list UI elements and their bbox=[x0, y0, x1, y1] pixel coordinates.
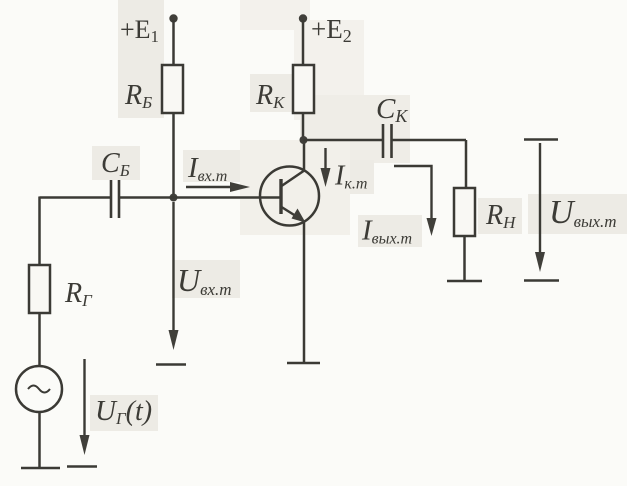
wire left branch down bbox=[38, 197, 41, 266]
resistor RK bbox=[293, 65, 314, 113]
wire E1 to RB bbox=[172, 20, 175, 65]
capacitor CB bbox=[110, 180, 113, 218]
bar U vyx.m top bbox=[524, 138, 558, 140]
wire source to ground bbox=[38, 412, 41, 467]
wire RK to collector node bbox=[302, 113, 305, 140]
node +E2 terminal dot bbox=[299, 14, 307, 22]
scan shading patches bbox=[90, 0, 627, 431]
source VG circle bbox=[16, 366, 62, 412]
collector wire up bbox=[303, 140, 306, 170]
transistor collector stroke bbox=[282, 170, 306, 186]
resistor RG bbox=[29, 265, 50, 313]
wire CB to base bbox=[119, 196, 281, 199]
wire CK to load bbox=[392, 139, 467, 142]
wire RB to base node bbox=[172, 113, 175, 198]
node base junction bbox=[170, 194, 178, 202]
wire RN to ground bbox=[463, 236, 466, 281]
capacitor CK bbox=[382, 124, 385, 158]
node +E1 terminal dot bbox=[169, 14, 177, 22]
ground (source) bbox=[21, 467, 60, 470]
bar U g(t) bbox=[67, 465, 97, 467]
node collector junction bbox=[300, 136, 308, 144]
wire E2 to RK bbox=[302, 20, 305, 65]
wire source to CB bbox=[40, 196, 112, 199]
wire RG to source bbox=[38, 313, 41, 366]
ground (load) bbox=[447, 280, 482, 283]
bar U vyx.m bottom bbox=[524, 279, 559, 281]
transistor base bar bbox=[279, 179, 282, 214]
arrow U g(t) bbox=[83, 359, 85, 441]
ground (emitter) bbox=[287, 362, 320, 365]
sine mark inside source bbox=[28, 386, 50, 393]
resistor RB bbox=[162, 65, 183, 113]
wire collector to CK bbox=[304, 139, 384, 142]
transistor emitter stroke with arrow bbox=[282, 207, 300, 218]
arrow I vyx.m bbox=[394, 166, 432, 222]
resistor RN bbox=[454, 188, 475, 236]
arrow I vx.m bbox=[186, 186, 238, 188]
transistor Q1 body bbox=[260, 167, 319, 226]
arrow I k.m bbox=[324, 148, 326, 174]
bar U vx.m bbox=[156, 363, 186, 365]
wire down to RN bbox=[465, 140, 468, 188]
emitter wire down bbox=[303, 222, 306, 362]
arrow U vyx.m bbox=[539, 143, 541, 258]
arrow U vx.m bbox=[172, 202, 174, 336]
